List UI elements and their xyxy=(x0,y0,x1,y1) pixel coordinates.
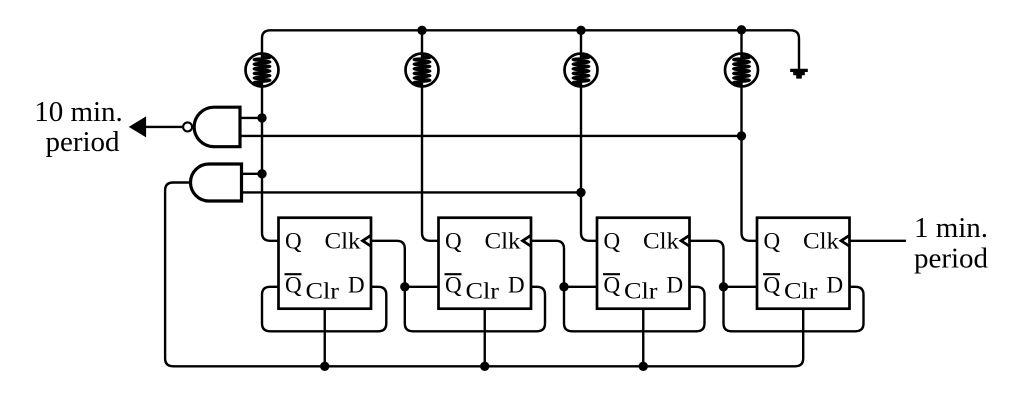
wire: NAND output to arrow xyxy=(141,126,183,128)
junction: NAND input 1 on column 1 xyxy=(257,113,266,122)
wire: FF1 Clk from node A xyxy=(371,241,405,287)
wire: FF2 D feedback loop from node A xyxy=(405,287,545,332)
junction: bus / column 3 xyxy=(576,26,585,35)
flip-flop U2 box xyxy=(439,218,532,309)
svg-text:10 min.: 10 min. xyxy=(34,96,123,128)
junction: node A (FF2 Qbar / FF1 Clk / FF2 D loop) xyxy=(400,282,409,291)
svg-text:Clk: Clk xyxy=(325,229,362,254)
wire: FF1 Qbar to D feedback loop xyxy=(262,287,386,332)
svg-text:Q: Q xyxy=(764,273,781,298)
svg-text:Clk: Clk xyxy=(485,229,522,254)
wire: V+ top bus with right drop to ground and left drop down column 1 into FF1 Q xyxy=(262,30,799,241)
junction: NAND input 2 on column 4 xyxy=(737,131,746,140)
svg-text:period: period xyxy=(45,126,120,158)
svg-text:Q: Q xyxy=(604,229,621,254)
flip-flop U1 box xyxy=(279,218,372,309)
wire: AND output down-left and along bottom clear bus to FF4 Clr xyxy=(165,183,803,367)
wire: FF3 Clk from node C xyxy=(690,241,724,287)
wire: node A to FF2 Qbar xyxy=(405,286,439,288)
wire: column 2 from bus down into FF2 Q xyxy=(422,30,439,241)
wire: column 4 from bus down into FF4 Q xyxy=(742,30,758,241)
svg-text:period: period xyxy=(914,242,989,274)
svg-text:Q: Q xyxy=(445,273,462,298)
junction: node C (FF4 Qbar / FF3 Clk / FF4 D loop) xyxy=(719,282,728,291)
lamp L4 xyxy=(725,54,758,87)
svg-text:Q: Q xyxy=(445,229,462,254)
svg-text:Clr: Clr xyxy=(624,279,658,304)
wire: FF4 D feedback loop from node C xyxy=(724,287,864,332)
junction: bus / column 2 xyxy=(417,26,426,35)
svg-text:Clk: Clk xyxy=(643,229,680,254)
junction: clear bus / FF1 Clr xyxy=(320,362,329,371)
NAND gate G1 body xyxy=(194,107,240,147)
wire: FF1 Clr down to clear bus xyxy=(324,309,326,367)
wire: FF3 D feedback loop from node B xyxy=(564,287,705,332)
svg-text:Clk: Clk xyxy=(803,229,840,254)
svg-text:Q: Q xyxy=(285,273,302,298)
svg-text:Clr: Clr xyxy=(466,279,500,304)
AND gate G2 body xyxy=(191,164,242,201)
NAND G1 output bubble xyxy=(183,122,192,131)
wire: NAND input 2 long line to column 4 xyxy=(240,135,742,137)
wire: FF3 Clr down to clear bus xyxy=(642,309,644,367)
ground xyxy=(790,69,808,79)
wire: AND input 2 long line to column 3 xyxy=(242,191,582,193)
svg-text:Q: Q xyxy=(285,229,302,254)
svg-text:1 min.: 1 min. xyxy=(914,212,988,244)
arrowhead: 10 min. period output xyxy=(129,116,146,137)
flip-flop U4 box xyxy=(757,218,850,309)
wire: column 3 from bus down into FF3 Q xyxy=(581,30,597,241)
svg-text:D: D xyxy=(348,273,365,298)
svg-text:Q: Q xyxy=(604,273,621,298)
svg-text:D: D xyxy=(508,273,525,298)
junction: clear bus / FF3 Clr xyxy=(639,362,648,371)
svg-text:Clr: Clr xyxy=(784,279,818,304)
junction: AND input 1 on column 1 xyxy=(257,169,266,178)
wire: AND input 1 stub xyxy=(242,173,263,175)
wire: NAND input 1 stub xyxy=(240,117,262,119)
svg-text:D: D xyxy=(827,273,844,298)
svg-text:D: D xyxy=(667,273,684,298)
wire: FF2 Clr down to clear bus xyxy=(484,309,486,367)
wire: node C to FF4 Qbar xyxy=(724,286,758,288)
wire: FF4 Clk external from 1 min. period xyxy=(850,240,907,242)
svg-text:Q: Q xyxy=(764,229,781,254)
wire: FF2 Clk from node B xyxy=(531,241,564,287)
lamp L3 xyxy=(565,54,598,87)
flip-flop U3 box xyxy=(597,218,690,309)
lamp L2 xyxy=(406,54,439,87)
junction: node B (FF3 Qbar / FF2 Clk / FF3 D loop) xyxy=(559,282,568,291)
junction: AND input 2 on column 3 xyxy=(576,188,585,197)
junction: clear bus / FF2 Clr xyxy=(480,362,489,371)
lamp L1 xyxy=(246,54,279,87)
svg-text:Clr: Clr xyxy=(306,279,340,304)
wire: node B to FF3 Qbar xyxy=(564,286,597,288)
junction: bus / column 4 xyxy=(737,25,746,34)
